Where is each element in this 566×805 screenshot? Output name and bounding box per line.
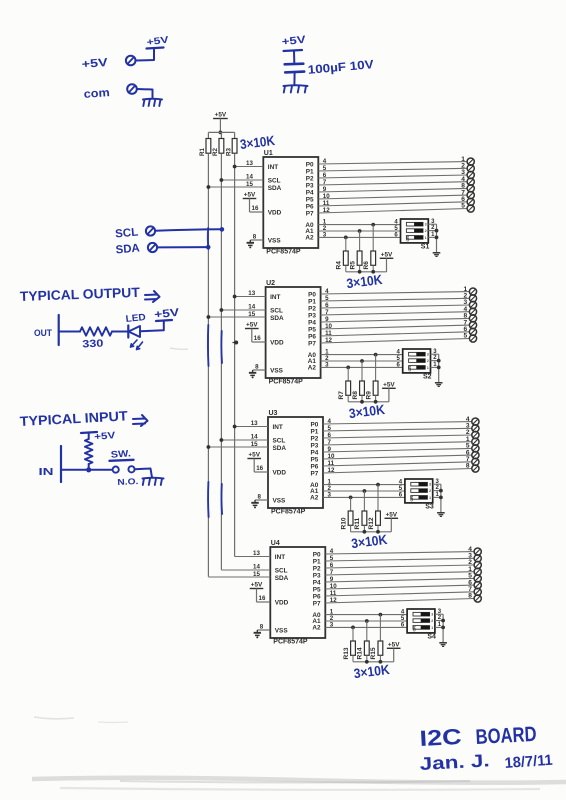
svg-text:R9: R9 — [365, 391, 372, 400]
pin number 8 (U4 VSS) — [260, 624, 264, 631]
pin number 7 (U3 P3) — [328, 439, 332, 446]
svg-text:P5: P5 — [308, 327, 316, 334]
signature Jan. J. 18/7/11 (handwritten) — [419, 750, 553, 774]
terminal 2 (bank 4) — [474, 561, 481, 568]
wire U3 P2 (pin 6) to terminal — [323, 435, 472, 438]
terminal number 3 (bank 1) — [461, 169, 465, 176]
svg-text:P4: P4 — [313, 580, 321, 587]
wire U1 VSS pin 8 to ground — [250, 239, 263, 241]
wire U1 A1 (pin 2) to switch S1 — [318, 230, 400, 232]
junction S4 pin 2 / ground rail — [441, 619, 445, 623]
node com label (handwritten) — [83, 87, 110, 101]
wire U4 P7 (pin 12) to terminal — [325, 599, 474, 604]
wire U1 P4 (pin 9) to terminal — [318, 188, 467, 192]
svg-text:8: 8 — [260, 624, 264, 631]
svg-text:330: 330 — [82, 337, 104, 350]
junction S3 pin 2 / ground rail — [439, 489, 443, 493]
pin number 8 (U2 VSS) — [255, 364, 259, 371]
svg-text:+5V: +5V — [383, 381, 395, 388]
power symbol +5V (U1 VDD) — [243, 192, 257, 199]
terminal number 5 (bank 2) — [464, 333, 468, 340]
pin number 3 (U2 A2) — [325, 361, 329, 368]
pin number 6 (U3 P2) — [328, 432, 332, 439]
wire U4 VSS pin 8 to ground — [257, 629, 270, 631]
terminal number 2 (bank 1) — [461, 163, 465, 170]
IC U1 PCF8574P — [263, 150, 318, 248]
junction SDA bus / U1 — [207, 185, 211, 189]
svg-text:P2: P2 — [310, 436, 318, 443]
wire blue overdraw SCL bus (3) — [220, 484, 223, 514]
resistor R4 — [336, 251, 349, 270]
wire R15 bottom lead — [379, 655, 381, 662]
wire R5 bottom lead — [359, 265, 361, 272]
junction SCL bus / U2 — [220, 308, 224, 312]
ground (U3 VSS) — [251, 500, 258, 508]
wire R10 top lead — [350, 497, 352, 511]
ground (U4 VSS) — [254, 630, 261, 638]
svg-text:P6: P6 — [313, 594, 321, 601]
terminal number 5 (bank 4) — [468, 573, 472, 580]
svg-text:+5V: +5V — [281, 34, 306, 48]
pin number 5 (U1 P1) — [323, 165, 327, 172]
junction A0 / R15 — [379, 613, 383, 617]
wire switch to ground (typical input) — [135, 469, 152, 478]
wire U1 P0 (pin 4) to terminal — [318, 162, 467, 164]
resistor 330 (handwritten) — [80, 327, 112, 335]
terminal 1 (bank 2) — [469, 288, 476, 295]
terminal 3 (bank 1) — [467, 171, 474, 178]
ground (S4) — [439, 643, 447, 647]
wire U2 P0 (pin 4) to terminal — [321, 292, 470, 294]
wire U1 P3 (pin 7) to terminal — [318, 182, 467, 185]
terminal 6 (bank 4) — [474, 582, 481, 589]
svg-text:+5V: +5V — [81, 57, 108, 71]
svg-text:+5V: +5V — [215, 112, 227, 119]
svg-text:7: 7 — [330, 569, 334, 576]
svg-text:SDA: SDA — [268, 185, 282, 192]
wire +5V stem (address pull-ups U2) — [388, 388, 390, 402]
svg-text:P7: P7 — [310, 471, 318, 478]
pin numbers 3,2,1 (S4 right) — [438, 609, 442, 628]
svg-text:13: 13 — [253, 550, 260, 557]
svg-text:3: 3 — [431, 613, 433, 617]
junction INT bus / U2 — [233, 295, 237, 299]
net SDA bus (vertical) — [207, 153, 209, 577]
wire R7 bottom lead — [347, 395, 349, 402]
value label 3x10K (U1, handwritten) — [346, 272, 384, 291]
wire blue overdraw SDA bus (2) — [207, 325, 210, 366]
svg-text:16: 16 — [252, 205, 259, 212]
terminal 8 (bank 4) — [474, 595, 481, 602]
svg-text:6: 6 — [323, 172, 327, 179]
wire SCL bus to U3 pin 14 — [221, 439, 268, 441]
ground (S2) — [435, 383, 443, 387]
svg-text:SDA: SDA — [270, 315, 284, 322]
wire S3 pins to ground rail — [433, 484, 441, 513]
terminal 2 (bank 1) — [467, 165, 474, 172]
pin numbers 3,2,1 (S2 right) — [433, 349, 437, 368]
svg-text:P7: P7 — [306, 211, 314, 218]
terminal number 3 (bank 4) — [468, 553, 472, 560]
DIP switch S1 — [401, 219, 429, 243]
pin number 9 (U1 P4) — [323, 186, 327, 193]
value label 3x10K (pull-ups, handwritten) — [239, 133, 276, 152]
wire U1 A0 (pin 1) to switch S1 — [318, 224, 400, 226]
svg-text:SW.: SW. — [110, 448, 131, 460]
svg-text:3: 3 — [328, 491, 332, 498]
switch SW (handwritten N.O. pushbutton) — [110, 460, 135, 473]
svg-text:5: 5 — [328, 425, 332, 432]
terminal number 6 (bank 3) — [466, 449, 470, 456]
pin number 16 (U1 VDD) — [252, 205, 259, 212]
svg-text:12: 12 — [330, 597, 337, 604]
node OUT label (handwritten) — [34, 328, 52, 339]
wire INT bus to U4 pin 13 — [235, 556, 271, 558]
svg-text:P6: P6 — [310, 464, 318, 471]
svg-text:R5: R5 — [349, 261, 356, 270]
wire blue overdraw SDA bus (3) — [207, 482, 210, 517]
svg-text:R12: R12 — [368, 517, 375, 529]
connector pad +5V — [126, 56, 136, 66]
pin number 5 (U4 P1) — [330, 555, 334, 562]
value label 330 — [82, 337, 104, 350]
terminal 4 (bank 2) — [469, 308, 476, 315]
node +5V label (handwritten) — [81, 57, 108, 71]
svg-text:11: 11 — [325, 330, 332, 337]
pin number 15 (U2 SDA) — [248, 311, 255, 318]
power symbol +5V (typical output) — [154, 307, 181, 322]
DIP switch S3 — [405, 479, 433, 503]
pin numbers 3,2,1 (S1 right) — [431, 219, 435, 238]
wire R4 top lead — [345, 237, 347, 251]
pin number 1 (U4 A0) — [330, 609, 334, 616]
pin number 14 (U4 SCL) — [253, 564, 260, 571]
wire SDA pad to SDA bus — [158, 246, 209, 248]
junction S1 pin 2 / ground rail — [435, 229, 439, 233]
svg-text:R4: R4 — [336, 261, 343, 270]
svg-text:4: 4 — [325, 288, 329, 295]
value label 3x10K (U2, handwritten) — [348, 402, 386, 421]
pin number 15 (U3 SDA) — [251, 441, 258, 448]
terminal 7 (bank 2) — [469, 322, 476, 329]
svg-text:P7: P7 — [313, 601, 321, 608]
wire U4 P4 (pin 9) to terminal — [325, 578, 474, 582]
heading TYPICAL INPUT (handwritten) — [19, 408, 147, 429]
svg-text:P1: P1 — [306, 169, 314, 176]
wire U2 A1 (pin 2) to switch S2 — [321, 360, 403, 362]
svg-text:12: 12 — [325, 337, 332, 344]
wire SCL pad to SCL bus — [156, 229, 222, 231]
wire IN terminal bar — [60, 446, 62, 482]
pin number 1 (U3 A0) — [328, 479, 332, 486]
terminal 7 (bank 4) — [474, 588, 481, 595]
IC U4 PCF8574P — [270, 540, 325, 638]
IC U2 PCF8574P — [266, 280, 321, 378]
pin number 2 (U2 A1) — [325, 355, 329, 362]
svg-text:9: 9 — [323, 186, 327, 193]
resistor R3 — [225, 139, 237, 157]
svg-text:3: 3 — [429, 483, 431, 487]
wire IN to switch — [61, 469, 112, 471]
resistor R9 — [365, 381, 378, 400]
svg-text:PCF8574P: PCF8574P — [273, 639, 308, 646]
junction A2 / R7 — [346, 366, 350, 370]
wire resistor commons to +5V (U2) — [348, 401, 389, 403]
svg-text:S3: S3 — [425, 504, 434, 511]
svg-text:S4: S4 — [427, 634, 436, 641]
resistor R5 — [349, 251, 362, 270]
wire S2 pins to ground rail — [431, 354, 439, 383]
terminal number 2 (bank 3) — [466, 429, 470, 436]
pin numbers 3,2,1 (S3 right) — [436, 479, 440, 498]
wire blue overdraw SCL bus (2) — [220, 331, 223, 363]
pin number 8 (U1 VSS) — [253, 234, 257, 241]
pin number 8 (U3 VSS) — [258, 494, 262, 501]
value label 3x10K (U4, handwritten) — [353, 662, 391, 681]
junction SDA bus / U2 — [207, 315, 211, 319]
terminal 6 (bank 3) — [472, 452, 479, 459]
power symbol +5V (address pull-ups U3) — [385, 511, 399, 518]
title I2C BOARD (handwritten) — [419, 723, 537, 751]
terminal number 4 (bank 2) — [464, 306, 468, 313]
wire U4 A0 (pin 1) to switch S4 — [325, 614, 407, 616]
node SDA label (handwritten) — [115, 242, 140, 256]
wire +5V to U2 VDD pin 16 — [252, 329, 266, 343]
terminal 1 (bank 4) — [474, 568, 481, 575]
svg-text:INT: INT — [268, 164, 278, 171]
wire SDA bus to U1 pin 15 — [208, 186, 263, 188]
label S4 — [427, 634, 436, 641]
terminal 3 (bank 2) — [469, 301, 476, 308]
pin number 7 (U2 P3) — [325, 309, 329, 316]
svg-text:1: 1 — [429, 496, 431, 500]
svg-text:INT: INT — [273, 424, 283, 431]
svg-text:SCL: SCL — [270, 308, 283, 315]
svg-text:14: 14 — [248, 304, 255, 311]
wire R8 bottom lead — [361, 395, 363, 402]
label S1 — [421, 244, 430, 251]
resistor R15 — [370, 641, 383, 660]
pin number 6 (U1 P2) — [323, 172, 327, 179]
junction S2 pin 2 / ground rail — [437, 359, 441, 363]
resistor R14 — [357, 641, 370, 660]
pin number 11 (U2 P6) — [325, 330, 332, 337]
value label 3x10K (U3, handwritten) — [350, 532, 388, 551]
pin number 15 (U4 SDA) — [253, 571, 260, 578]
svg-text:11: 11 — [323, 200, 330, 207]
svg-text:16: 16 — [254, 335, 261, 342]
pin number 2 (U1 A1) — [323, 225, 327, 232]
wire com pad to ground — [137, 89, 153, 98]
svg-text:P2: P2 — [313, 566, 321, 573]
node IN label (handwritten) — [39, 466, 54, 478]
wire U3 A0 (pin 1) to switch S3 — [323, 484, 405, 486]
junction A0 / R6 — [371, 223, 375, 227]
terminal 7 (bank 3) — [472, 458, 479, 465]
junction INT bus / U3 — [233, 425, 237, 429]
pin number 3 (U4 A2) — [330, 621, 334, 628]
svg-text:18/7/11: 18/7/11 — [504, 752, 553, 772]
terminal number 1 (bank 2) — [464, 286, 468, 293]
DIP switch S2 — [403, 349, 431, 373]
wire U3 P5 (pin 10) to terminal — [323, 455, 472, 459]
svg-text:7: 7 — [328, 439, 332, 446]
wire R14 top lead — [366, 621, 368, 641]
wire U2 P1 (pin 5) to terminal — [321, 298, 470, 301]
ground (S3) — [437, 513, 445, 517]
svg-text:1: 1 — [431, 626, 433, 630]
svg-text:IN: IN — [39, 466, 54, 478]
ground (com, handwritten) — [143, 99, 162, 106]
svg-text:7: 7 — [323, 179, 327, 186]
svg-text:3: 3 — [425, 223, 427, 227]
junction A2 / R4 — [344, 236, 348, 240]
label PCF8574P (U1) — [266, 249, 301, 256]
wire U2 P7 (pin 12) to terminal — [321, 339, 470, 344]
pin number 16 (U4 VDD) — [259, 595, 266, 602]
wire R13 top lead — [352, 627, 354, 641]
terminal number 2 (bank 2) — [464, 293, 468, 300]
wire INT bus to U3 pin 13 — [235, 426, 268, 428]
svg-text:R11: R11 — [354, 517, 361, 529]
svg-text:1: 1 — [427, 366, 429, 370]
junction SDA pad wire / SDA bus — [206, 245, 211, 250]
svg-text:16: 16 — [259, 595, 266, 602]
wire R9 bottom lead — [375, 395, 377, 402]
svg-text:R15: R15 — [370, 647, 377, 659]
svg-text:A2: A2 — [308, 364, 317, 371]
wire U2 P4 (pin 9) to terminal — [321, 318, 470, 322]
wire SDA bus to U3 pin 15 — [208, 446, 268, 448]
svg-text:S2: S2 — [423, 374, 432, 381]
wire +5V stem (address pull-ups U4) — [393, 648, 395, 662]
junction S1 pin 1 / ground rail — [435, 236, 439, 240]
svg-text:SCL: SCL — [268, 178, 281, 185]
junction A1 / R11 — [363, 489, 367, 493]
pin number 13 (U2 INT) — [248, 290, 255, 297]
svg-text:8: 8 — [258, 494, 262, 501]
terminal number 3 (bank 3) — [466, 423, 470, 430]
ground (typical input, handwritten) — [143, 478, 164, 485]
pin number 13 (U1 INT) — [246, 160, 253, 167]
wire U3 P3 (pin 7) to terminal — [323, 442, 472, 445]
pin numbers 4,5,6 (S1 left) — [394, 219, 398, 238]
wire resistor commons to +5V (U4) — [353, 661, 394, 663]
svg-text:SCL: SCL — [273, 438, 286, 445]
wire U2 VSS pin 8 to ground — [253, 369, 266, 371]
terminal number 6 (bank 2) — [464, 326, 468, 333]
pin number 10 (U2 P5) — [325, 323, 332, 330]
pin number 4 (U1 P0) — [323, 158, 327, 165]
wire R11 bottom lead — [363, 525, 365, 532]
wire U2 P5 (pin 10) to terminal — [321, 325, 470, 329]
svg-text:I2C: I2C — [419, 724, 462, 751]
svg-text:+5V: +5V — [251, 582, 263, 589]
resistor R13 — [343, 641, 356, 660]
svg-text:PCF8574P: PCF8574P — [266, 249, 301, 256]
wire U1 P1 (pin 5) to terminal — [318, 168, 467, 171]
junction A0 / R12 — [376, 483, 380, 487]
svg-text:VSS: VSS — [268, 238, 282, 245]
svg-text:11: 11 — [328, 460, 335, 467]
wire U2 P6 (pin 11) to terminal — [321, 332, 470, 336]
svg-text:15: 15 — [248, 311, 255, 318]
terminal 1 (bank 3) — [472, 438, 479, 445]
svg-text:10: 10 — [323, 193, 330, 200]
power symbol +5V (top-left) — [146, 34, 170, 48]
pin number 2 (U3 A1) — [328, 485, 332, 492]
wire +5V stem (address pull-ups U3) — [390, 518, 392, 532]
wire R5 top lead — [359, 231, 361, 251]
wire U2 P3 (pin 7) to terminal — [321, 312, 470, 315]
svg-text:P4: P4 — [308, 320, 316, 327]
connector pad SCL — [146, 226, 155, 235]
pin number 3 (U3 A2) — [328, 491, 332, 498]
terminal 4 (bank 4) — [474, 548, 481, 555]
svg-text:13: 13 — [248, 290, 255, 297]
net SCL bus (vertical) — [220, 153, 222, 570]
pin number 11 (U4 P6) — [330, 590, 337, 597]
svg-text:VDD: VDD — [270, 340, 284, 347]
wire U3 P7 (pin 12) to terminal — [323, 469, 472, 474]
wire U4 P5 (pin 10) to terminal — [325, 585, 474, 589]
svg-text:A2: A2 — [310, 494, 319, 501]
power symbol +5V (pull-up rail) — [213, 112, 228, 119]
wire U4 P0 (pin 4) to terminal — [325, 552, 474, 554]
svg-text:8: 8 — [255, 364, 259, 371]
wire +5V stem (address pull-ups U1) — [386, 258, 388, 272]
svg-text:11: 11 — [330, 590, 337, 597]
svg-text:com: com — [83, 87, 110, 101]
wire OUT to resistor — [59, 331, 80, 333]
svg-text:SDA: SDA — [275, 575, 289, 582]
svg-text:14: 14 — [251, 434, 258, 441]
svg-text:15: 15 — [251, 441, 258, 448]
pin number 11 (U3 P6) — [328, 460, 335, 467]
capacitor C1 100uF 10V — [285, 64, 305, 73]
svg-text:R10: R10 — [340, 517, 347, 529]
svg-text:6: 6 — [325, 302, 329, 309]
svg-text:U2: U2 — [266, 280, 275, 287]
wire INT bus to U1 pin 13 — [235, 166, 264, 168]
svg-text:13: 13 — [246, 160, 253, 167]
terminal number 7 (bank 1) — [461, 189, 465, 196]
svg-text:10: 10 — [328, 453, 335, 460]
terminal 3 (bank 4) — [474, 555, 481, 562]
junction SDA bus / U3 — [207, 445, 211, 449]
terminal number 2 (bank 4) — [468, 559, 472, 566]
svg-text:P0: P0 — [310, 422, 318, 429]
svg-text:8: 8 — [253, 234, 257, 241]
svg-text:INT: INT — [275, 554, 285, 561]
junction R5 / common — [358, 270, 362, 274]
svg-text:1: 1 — [425, 236, 427, 240]
resistor R7 — [338, 381, 351, 400]
terminal 7 (bank 1) — [467, 192, 474, 199]
wire U1 P2 (pin 6) to terminal — [318, 175, 467, 178]
wire LED to +5V — [140, 321, 164, 331]
wire R10 bottom lead — [350, 525, 352, 532]
wire U1 P5 (pin 10) to terminal — [318, 195, 467, 199]
svg-text:A2: A2 — [312, 624, 321, 631]
wire S4 pins to ground rail — [435, 614, 443, 643]
wire R7 top lead — [347, 367, 349, 381]
svg-text:+5V: +5V — [244, 192, 256, 199]
svg-text:14: 14 — [253, 564, 260, 571]
wire SDA bus to U2 pin 15 — [208, 316, 265, 318]
svg-text:U3: U3 — [269, 410, 278, 417]
svg-text:P2: P2 — [308, 306, 316, 313]
